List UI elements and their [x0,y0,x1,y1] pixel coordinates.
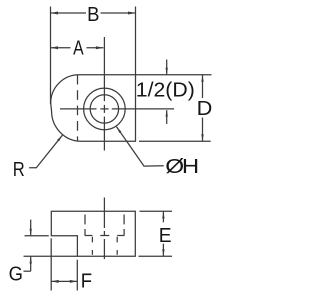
extension line F left [50,238,52,290]
top edge extension line [136,74,212,76]
hidden drill wall left [91,236,93,256]
hidden counterbore wall left [84,211,86,236]
dimension G arrows [24,220,32,272]
svg-text:R: R [13,159,25,181]
dimension A [51,46,104,49]
dimension B [51,12,136,15]
centerline side view [103,198,105,260]
horizontal centerline top view [60,108,174,110]
vertical centerline top view [103,37,105,151]
svg-text:B: B [87,4,99,26]
svg-text:H: H [182,156,199,178]
hidden drill wall right [116,236,118,256]
extension line E upper [140,210,173,212]
extension line F right [76,260,78,291]
dimension F [51,280,77,283]
part outline side view [51,211,135,256]
extension line bottom (D) [139,140,211,142]
counterbore circle [84,88,126,130]
dimension D [201,75,203,142]
svg-text:E: E [159,225,172,247]
extension line left (A,B) [50,7,52,105]
extension line G upper [25,235,49,237]
hidden line step edge top view [77,75,79,142]
extension line E lower [139,255,173,257]
hole circle [90,95,118,123]
svg-text:1/2(D): 1/2(D) [136,79,195,101]
svg-text:G: G [9,264,23,286]
leader ØH [116,127,163,167]
svg-text:A: A [73,38,84,60]
dimension 1/2(D) arrows [166,60,168,124]
hidden counterbore wall right [123,211,125,236]
svg-text:F: F [81,271,92,293]
dimension E arrows [162,211,164,256]
leader R [29,135,62,168]
svg-text:D: D [197,98,213,120]
part outline top view [51,75,136,142]
extension line right (B) [135,7,137,75]
extension line G lower [24,255,78,257]
hidden counterbore bottom [85,235,124,237]
